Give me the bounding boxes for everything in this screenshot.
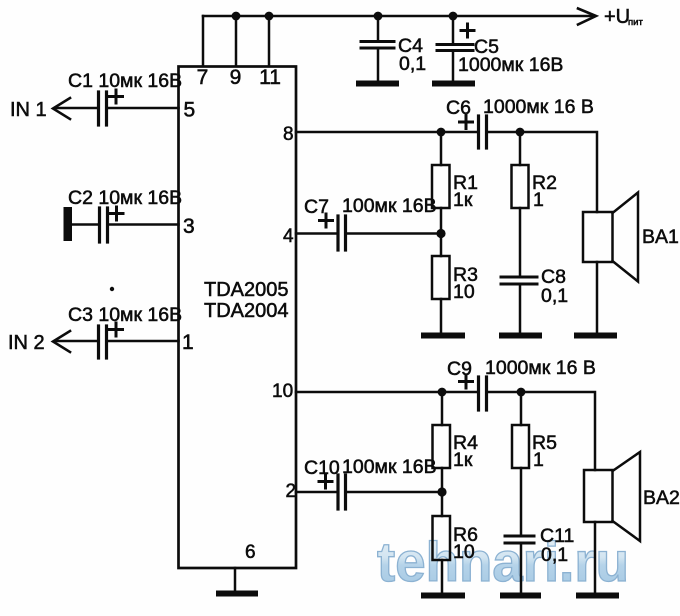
label R6 value <box>453 524 478 563</box>
svg-text:1000мк 16 В: 1000мк 16 В <box>483 96 594 118</box>
ground below BA1 <box>577 333 614 339</box>
capacitor C7 <box>320 214 442 250</box>
svg-text:1: 1 <box>182 331 194 354</box>
label R1 value <box>453 172 478 211</box>
svg-text:BA1: BA1 <box>642 226 679 248</box>
wire pin10 row <box>296 391 477 394</box>
label R3 value <box>453 264 478 303</box>
label C4 value <box>398 35 426 75</box>
label C10 value <box>304 456 437 479</box>
resistor R3 <box>432 234 450 334</box>
label C7 value <box>304 195 437 218</box>
ground below R6 <box>424 593 462 599</box>
label R5 value <box>532 432 557 471</box>
wire C6 to BA1 <box>488 132 597 212</box>
junction dot pin10/R4 <box>438 388 447 397</box>
node +U arrow <box>578 9 596 25</box>
svg-text:C2 10мк 16В: C2 10мк 16В <box>68 187 182 209</box>
svg-text:1000мк 16В: 1000мк 16В <box>458 54 563 76</box>
wire pin2 row <box>296 491 336 494</box>
svg-text:1к: 1к <box>453 449 473 471</box>
svg-text:6: 6 <box>245 542 256 563</box>
svg-text:TDA2005: TDA2005 <box>204 279 289 301</box>
svg-text:1к: 1к <box>453 189 473 211</box>
resistor R6 <box>433 492 451 593</box>
svg-text:BA2: BA2 <box>643 487 680 509</box>
label C8 value <box>541 266 568 307</box>
op-amp U1 TDA2005/TDA2004 body <box>179 67 297 569</box>
svg-text:10: 10 <box>272 381 293 402</box>
svg-text:11: 11 <box>259 66 281 89</box>
label U1 type <box>204 279 289 322</box>
ground below C5 <box>435 81 472 87</box>
junction dot C5/rail <box>449 12 458 21</box>
svg-text:IN 1: IN 1 <box>10 99 47 121</box>
label C6 value <box>446 96 594 119</box>
capacitor C9 <box>460 375 487 410</box>
ground below C11 <box>503 593 538 599</box>
capacitor C5 <box>437 16 474 81</box>
junction dot pin11/rail <box>265 12 274 21</box>
ground below BA2 <box>579 593 616 599</box>
loudspeaker BA2 <box>584 452 640 592</box>
label C5 value <box>458 36 563 76</box>
svg-text:+U: +U <box>604 6 630 28</box>
label +Uпит <box>604 6 643 28</box>
wire C9 to BA2 <box>488 392 595 470</box>
wire pin9 to +U rail <box>235 16 238 66</box>
junction dot pin8/R1 <box>437 128 446 137</box>
ground below C8 <box>502 333 539 339</box>
resistor R4 <box>433 392 451 492</box>
capacitor C1 <box>55 90 179 125</box>
label C11 value <box>540 525 574 566</box>
capacitor C10 <box>319 475 442 509</box>
svg-text:tehnari.ru: tehnari.ru <box>377 531 629 593</box>
svg-text:0,1: 0,1 <box>541 544 568 566</box>
svg-text:4: 4 <box>283 226 294 247</box>
svg-text:1: 1 <box>533 449 544 471</box>
svg-text:5: 5 <box>184 99 196 122</box>
capacitor C11 <box>505 536 534 593</box>
svg-text:3: 3 <box>183 215 195 238</box>
junction dot R1/R3/C7 <box>436 229 445 238</box>
capacitor C8 <box>501 277 537 333</box>
svg-text:7: 7 <box>197 66 209 89</box>
junction dot C6/R2 <box>516 128 525 137</box>
svg-text:C10: C10 <box>304 457 340 479</box>
stray dot artifact <box>110 287 114 291</box>
wire pin6 to ground <box>234 568 237 591</box>
svg-text:1000мк 16 В: 1000мк 16 В <box>485 357 596 379</box>
svg-text:C6: C6 <box>446 97 471 119</box>
svg-text:C7: C7 <box>304 196 329 218</box>
label R4 value <box>453 432 478 471</box>
svg-text:пит: пит <box>628 17 643 28</box>
capacitor C3 <box>55 323 179 358</box>
svg-text:C1 10мк 16В: C1 10мк 16В <box>68 70 182 92</box>
svg-text:TDA2004: TDA2004 <box>204 300 289 322</box>
junction dot R4/R6/C10 <box>437 487 446 496</box>
capacitor C2 <box>64 207 179 242</box>
ground below C4 <box>359 81 396 87</box>
label C9 value <box>447 357 596 380</box>
svg-text:100мк 16В: 100мк 16В <box>342 456 437 478</box>
wire pin11 to +U rail <box>268 16 271 66</box>
svg-text:100мк 16В: 100мк 16В <box>342 195 437 217</box>
wire +U supply rail <box>203 15 594 18</box>
node IN 1 arrow <box>53 98 70 119</box>
wire pin8 row <box>296 131 477 134</box>
svg-text:1: 1 <box>533 189 544 211</box>
label R2 value <box>532 172 557 211</box>
svg-text:IN 2: IN 2 <box>8 332 45 354</box>
junction dot pin9/rail <box>232 12 241 21</box>
resistor R2 <box>512 132 529 276</box>
loudspeaker BA1 <box>583 193 638 333</box>
svg-text:C9: C9 <box>447 358 472 380</box>
junction dot C4/rail <box>374 12 383 21</box>
svg-text:0,1: 0,1 <box>541 285 568 307</box>
svg-text:0,1: 0,1 <box>399 53 426 75</box>
svg-text:9: 9 <box>230 66 242 89</box>
ground below R3 <box>424 333 462 339</box>
wire pin7 to +U rail <box>202 16 205 66</box>
capacitor C6 <box>460 116 487 149</box>
resistor R5 <box>512 392 529 535</box>
capacitor C4 <box>361 16 394 81</box>
wire pin4 row <box>296 232 336 235</box>
svg-text:10: 10 <box>453 541 475 563</box>
junction dot C9/R5 <box>517 388 526 397</box>
svg-text:C3 10мк 16В: C3 10мк 16В <box>68 304 182 326</box>
svg-text:10: 10 <box>453 281 475 303</box>
ground below pin6 <box>219 591 255 597</box>
svg-text:8: 8 <box>283 124 294 145</box>
resistor R1 <box>432 132 450 234</box>
node IN 2 arrow <box>53 331 70 352</box>
svg-text:2: 2 <box>286 481 297 502</box>
